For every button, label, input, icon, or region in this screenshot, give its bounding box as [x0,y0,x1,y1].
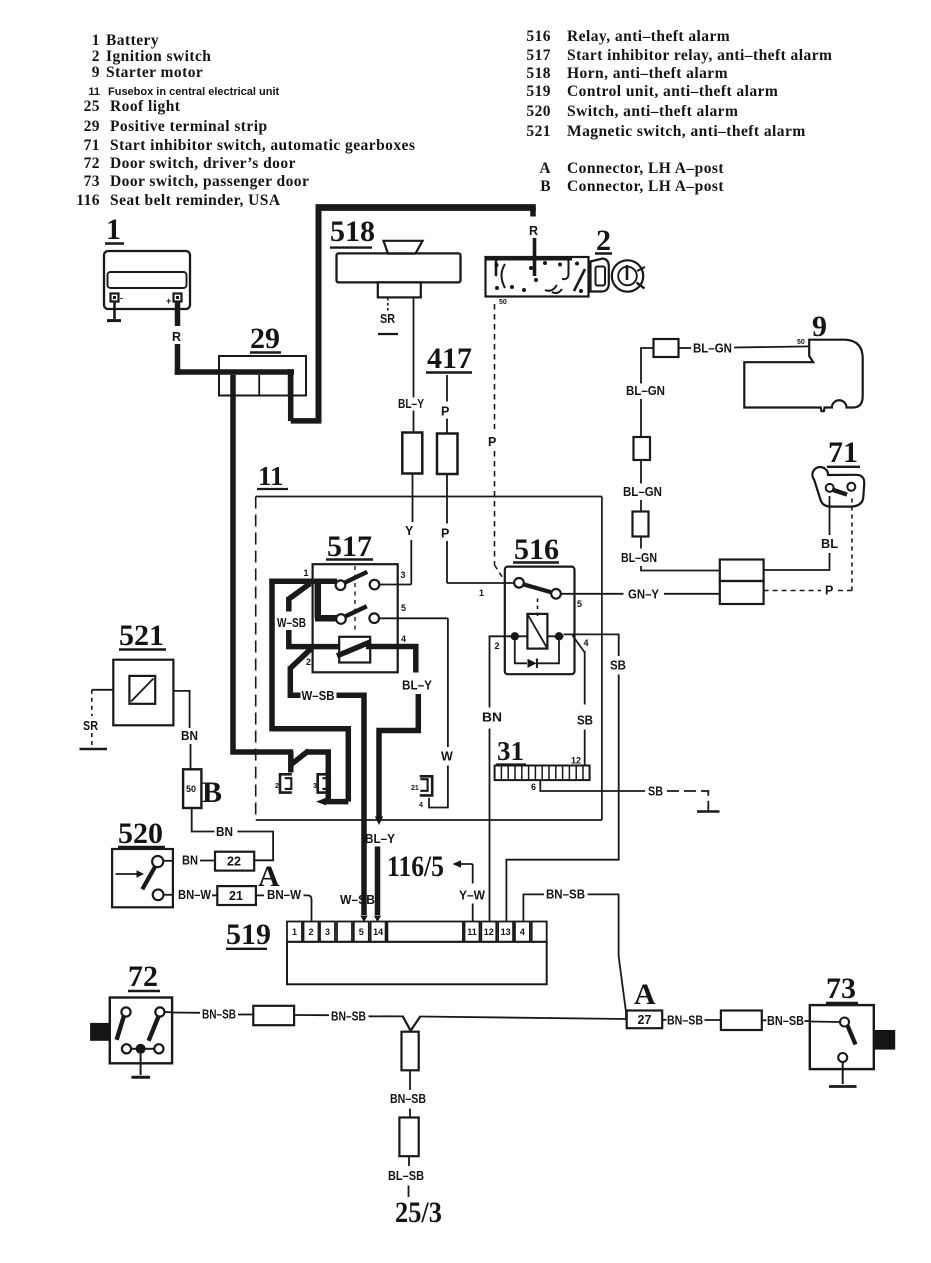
svg-text:2: 2 [495,641,500,651]
svg-text:Control unit, anti–theft alarm: Control unit, anti–theft alarm [567,83,778,100]
73 contacts [838,1018,849,1063]
fuse chain top fuse [654,339,679,357]
terminal strip 31 label [496,736,526,766]
thick wire BL-Y down stub [413,644,419,673]
connector A 27 box [627,1011,663,1029]
svg-text:SR: SR [83,719,98,733]
wire R to main vertical [291,418,322,424]
svg-text:Ignition switch: Ignition switch [106,48,211,65]
start inhibitor switch 71 body [812,467,864,507]
svg-text:BL–GN: BL–GN [621,551,657,565]
svg-text:116/5: 116/5 [387,850,444,883]
svg-text:BL–SB: BL–SB [388,1169,424,1183]
wire BN-W to 519 pin2 [304,895,312,921]
wire connector to label [762,1019,767,1021]
svg-text:417: 417 [427,342,472,375]
svg-text:5: 5 [401,603,406,613]
wire R horizontal into 29 [175,369,294,375]
svg-text:Y–W: Y–W [459,889,485,903]
wire to fuse 3 [640,500,642,512]
wire stub to 21 box [212,894,217,896]
terminal strip 31 body [495,766,590,781]
516 contact left [514,578,524,588]
73 switch arm [848,1026,856,1045]
thick wire W-SB to 519 pin5 [337,693,367,916]
thick wire lower feed right [306,752,331,800]
517 switch 2 arm [345,606,367,616]
ignition key housing [591,259,609,292]
71 switch arm [832,490,847,495]
relay 517 box [313,564,398,672]
switch 520 label [118,817,165,850]
wire to label 4 [640,537,642,549]
svg-text:Start inhibitor relay, anti–th: Start inhibitor relay, anti–theft alarm [567,47,832,64]
fusebox 11 outline left [255,497,257,821]
wire SB from 516 pin4 right [564,634,619,656]
svg-text:5: 5 [359,927,364,937]
thick wire lower feed left elbow [230,749,293,755]
wire BL to 71 [829,496,831,535]
svg-text:BL–Y: BL–Y [365,832,396,846]
svg-text:-: - [120,293,123,303]
thick wire branch diagonal to W-SB stub [289,583,311,611]
wire P dashed from ignition [495,304,506,582]
svg-text:2: 2 [306,657,311,667]
svg-text:14: 14 [373,927,383,937]
wire BN into 22 box [200,860,215,862]
svg-text:50: 50 [499,299,507,306]
ground at 521 [80,733,108,749]
horn 518 magnet [378,282,421,297]
svg-text:+: + [166,296,171,306]
wire junction to BL [764,553,830,570]
horn ground lead dotted [387,298,389,311]
wire 517 pin5 to W [379,617,448,619]
svg-text:1: 1 [304,568,309,578]
top bus wire [316,204,536,211]
519 body [287,942,547,985]
svg-text:Door switch, passenger door: Door switch, passenger door [110,173,309,190]
main vertical feed wire [316,205,322,424]
519 terminal row [287,922,547,942]
legend right column [526,28,832,195]
svg-text:Door switch, driver’s door: Door switch, driver’s door [110,155,296,172]
roof light connector 1 [402,1032,419,1071]
svg-text:P: P [825,584,833,598]
wire to inline connector right [705,1019,721,1021]
wire BN-SB from 519 pin4 [523,894,544,921]
wire to Y junction [369,1015,404,1017]
svg-text:116: 116 [76,192,100,209]
control unit 519 label [226,918,271,951]
thick wire W-SB feed into 517 pin1 [269,579,337,585]
520 switch arm [142,867,155,890]
inline connector right [721,1011,762,1031]
svg-text:A: A [539,160,551,177]
516 diode loop [515,641,559,664]
521 inner element [129,676,155,704]
wire 521 right BN [173,691,189,728]
terminal strip 29 box [219,356,306,396]
svg-text:2: 2 [275,783,279,790]
relay 516 box [505,567,575,675]
svg-text:Relay, anti–theft alarm: Relay, anti–theft alarm [567,28,730,45]
svg-text:1: 1 [479,588,484,598]
svg-text:Connector, LH A–post: Connector, LH A–post [567,178,724,195]
svg-text:9: 9 [92,64,100,81]
fusebox 11 outline bottom [256,819,602,821]
wire feed 29 branch down [230,375,236,755]
wire W down [447,618,449,747]
door switch 72 label [128,960,160,993]
svg-text:GN–Y: GN–Y [628,588,660,602]
72 bottom links [131,1048,154,1050]
svg-text:BN–SB: BN–SB [667,1014,703,1028]
svg-text:11: 11 [258,461,284,491]
svg-text:BL: BL [821,537,838,551]
svg-text:12: 12 [571,756,581,766]
svg-text:22: 22 [227,855,241,869]
svg-text:BN: BN [182,854,198,868]
svg-text:Starter motor: Starter motor [106,64,203,81]
bracket connector 3 inner [322,778,329,789]
svg-text:71: 71 [84,137,100,154]
svg-text:Seat belt reminder, USA: Seat belt reminder, USA [110,192,281,209]
72 plunger tab [90,1023,110,1041]
svg-text:516: 516 [514,533,559,566]
wire BN-SB loop down to connector A [588,894,627,1019]
junction box upper [720,560,764,582]
wire BN elbow to 22 [238,832,274,861]
wire into 73 [805,1020,810,1022]
svg-text:B: B [540,178,551,195]
wire P dashed junction to 71 [764,495,852,591]
relay 516 label [513,533,559,566]
svg-text:BN: BN [216,825,233,839]
connector 21/4 outer [420,776,433,795]
svg-text:2: 2 [308,927,313,937]
starter motor 9 body [744,340,862,412]
517 coil [339,637,370,663]
svg-text:1: 1 [92,32,100,49]
517 switch 2 contacts [336,613,379,623]
svg-text:21: 21 [229,889,243,903]
svg-text:4: 4 [401,634,406,644]
svg-text:Y: Y [405,524,414,538]
thick wire W-SB stub to coil pin 2 [286,630,340,649]
fusebox 11 outline right [601,497,603,821]
Y junction legs [403,1016,421,1030]
svg-text:31: 31 [497,736,524,766]
svg-text:SB: SB [577,714,593,728]
svg-text:72: 72 [84,155,100,172]
ignition key circle [612,260,645,291]
wire SB loop to 519 pin13 [506,675,618,922]
terminal strip 29 label [250,322,281,355]
wire R battery down [175,302,181,375]
battery ground stem [107,302,121,321]
svg-text:Roof light: Roof light [110,98,181,115]
svg-text:BN: BN [181,729,198,743]
legend left column [76,32,415,209]
svg-text:2: 2 [596,224,611,257]
svg-text:519: 519 [226,918,271,951]
wire below connector 1 [409,1070,411,1090]
thick wire 517 pin4 out [366,644,418,650]
wire bus to connector A [420,1017,627,1020]
svg-text:11: 11 [467,927,477,937]
thick wire lower feed V tap [290,751,309,773]
516 armature dashed link [537,599,539,617]
svg-text:W–SB: W–SB [340,893,375,907]
door switch 72 box [110,998,172,1064]
fuse chain middle fuse [634,437,651,460]
wire BL-GN into junction box [641,566,720,571]
71 contact left [826,484,834,492]
516 coil cross wires [511,635,564,637]
svg-text:517: 517 [327,530,372,563]
wire 521 left to SR ground [92,690,114,716]
wire SB strip pin6 to ground [540,780,645,791]
wire R into ignition switch [533,238,537,276]
520 stubs [163,861,173,895]
wire to connector [238,1014,253,1016]
relay 517 center dashed line [354,566,356,634]
svg-text:W–SB: W–SB [302,689,335,703]
svg-text:519: 519 [526,83,551,100]
magnetic switch 521 label [119,619,166,652]
svg-text:25/3: 25/3 [395,1196,442,1229]
svg-text:BL–Y: BL–Y [402,679,433,693]
svg-text:4: 4 [584,638,589,648]
bracket connector 2 outer [280,774,292,792]
svg-text:Switch, anti–theft alarm: Switch, anti–theft alarm [567,103,738,120]
fuse BL-Y [402,433,422,474]
arrow W-SB into pin 5 [360,916,367,923]
connector B 50 box [183,769,201,808]
connector box 22 [215,852,254,871]
svg-text:1: 1 [106,213,121,246]
thick wire branch to contact 2 [315,579,337,619]
wire below connector 2 [408,1156,410,1166]
wire to fuse 2 [640,399,642,437]
svg-text:BN–W: BN–W [178,888,211,902]
svg-text:P: P [488,435,496,449]
wire W to connector [429,766,448,808]
svg-text:SB: SB [610,659,626,673]
svg-text:SB: SB [648,785,663,799]
517 switch 1 contacts [336,580,380,590]
ignition switch 2 label [595,224,612,257]
517 pin labels [304,568,407,667]
svg-text:2: 2 [92,48,100,65]
519 terminal numbers [292,927,525,937]
72 switch arms [117,1015,159,1040]
battery 1 label [105,213,124,246]
wire SB dashes to ground [667,791,708,811]
516 contact right [551,589,561,599]
svg-text:Start inhibitor switch, automa: Start inhibitor switch, automatic gearbo… [110,137,415,154]
arrow into bracket 3 [316,798,326,806]
svg-text:72: 72 [128,960,158,993]
ignition switch internals [495,258,586,293]
svg-text:4: 4 [419,802,423,809]
wire Y-W from arrow [472,864,474,884]
svg-text:W–SB: W–SB [277,616,306,630]
520 arrow [116,870,145,877]
svg-text:517: 517 [526,47,551,64]
svg-text:Positive terminal strip: Positive terminal strip [110,118,268,135]
svg-text:BN–SB: BN–SB [202,1008,236,1022]
wire BN-SB right of connector A [662,1019,666,1021]
thick wire pin2 diagonal down [288,649,311,698]
svg-text:73: 73 [826,972,856,1005]
arrow BL-Y into pin 14 [374,916,381,923]
ignition switch 2 box [486,257,589,297]
wire to 25/3 [408,1186,410,1198]
svg-text:1: 1 [292,927,297,937]
wire BN to connector B [190,744,192,769]
517 switch 1 arm [344,572,367,583]
72 junction dot [136,1044,146,1054]
svg-text:520: 520 [526,103,551,120]
516 diode [528,659,537,669]
svg-text:BL–GN: BL–GN [693,342,732,356]
svg-text:BL–Y: BL–Y [398,397,425,411]
svg-text:3: 3 [313,783,317,790]
wire BN-SB from 72 [165,1011,201,1014]
svg-text:13: 13 [501,927,511,937]
svg-text:518: 518 [330,215,375,248]
wire fuse chain corner [641,348,654,384]
wire BN below B [192,808,215,832]
svg-text:73: 73 [84,173,100,190]
ground bar right [697,810,720,813]
svg-text:516: 516 [526,28,551,45]
svg-text:BN–SB: BN–SB [331,1010,366,1024]
516 pin2 junction dot [511,632,519,640]
bracket connector 3 outer [318,774,330,792]
svg-text:3: 3 [325,927,330,937]
svg-text:50: 50 [186,784,196,794]
72 ground [132,1054,151,1078]
svg-text:Fusebox in central electrical: Fusebox in central electrical unit [108,86,279,98]
wire to label [640,460,642,484]
wire BN-W right of 21 [256,894,264,896]
svg-text:3: 3 [401,570,406,580]
73 ground [829,1062,857,1087]
svg-text:R: R [172,330,181,344]
svg-text:25: 25 [84,98,100,115]
svg-text:Battery: Battery [106,32,159,49]
520 contact bottom [153,889,164,900]
svg-text:Horn, anti–theft alarm: Horn, anti–theft alarm [567,65,728,82]
thick wire BL-Y to 519 pin14 [375,847,381,916]
wire 517 pin3 [379,584,411,586]
fuse P [437,434,458,475]
wire 417 to fuse P [446,375,448,434]
svg-text:12: 12 [484,927,494,937]
switch 520 box [112,849,173,907]
arrow BL-Y at box edge [375,817,383,826]
svg-text:SR: SR [380,312,395,326]
svg-text:R: R [529,224,538,238]
roof light connector 2 [399,1118,418,1157]
svg-text:Magnetic switch, anti–theft al: Magnetic switch, anti–theft alarm [567,123,806,140]
svg-text:Connector, LH A–post: Connector, LH A–post [567,160,724,177]
bracket connector 2 inner [285,778,292,789]
wire GN-Y to junction [664,593,720,595]
door switch 73 box [810,1005,874,1069]
516 coil [527,614,547,649]
inline connector left [253,1006,294,1025]
svg-text:21: 21 [411,785,419,792]
wire 516 pin5 GN-Y [561,593,624,595]
73 plunger tab [874,1030,895,1050]
wire SB into strip 31 [584,730,586,766]
svg-text:27: 27 [638,1013,652,1027]
top bus stub to ignition [530,208,536,217]
connector 21/4 inner [420,779,427,791]
arrow to 116/5 [453,860,473,867]
wire SB diagonal from pin4 [572,635,584,704]
svg-text:518: 518 [526,65,551,82]
svg-text:B: B [202,776,222,809]
wire BN from 516 pin2 [490,636,512,707]
horn 518 cone [384,241,423,254]
fusebox 11 outline top [256,496,602,498]
71 contact right [847,483,855,491]
svg-text:520: 520 [118,817,163,850]
thick wire left vertical at 517 [269,579,275,732]
junction box lower [720,581,764,604]
svg-text:BN–SB: BN–SB [767,1014,804,1028]
wire Y fuse to 517 pin3 [411,474,412,585]
svg-text:BN–SB: BN–SB [546,888,585,902]
wire connector to label [294,1014,329,1016]
svg-text:BL–GN: BL–GN [623,485,662,499]
svg-text:11: 11 [88,86,100,98]
battery 1 body [104,251,190,309]
520 contact top [152,856,163,867]
svg-text:29: 29 [84,118,100,135]
svg-text:4: 4 [520,927,525,937]
fuse 417 label [426,342,472,375]
wire P fuse to 516 pin1 [447,474,514,583]
svg-text:BN–W: BN–W [267,888,301,902]
fusebox 11 label [257,461,288,491]
svg-text:P: P [441,527,449,541]
wire horn to fuse [413,297,415,432]
door switch 73 label [826,972,858,1005]
svg-text:BN: BN [482,711,502,725]
73 wire into contact [810,1021,840,1024]
svg-text:9: 9 [812,310,827,343]
wire BN to 519 pin12 [489,729,491,922]
magnetic switch 521 box [113,660,173,726]
svg-text:W: W [441,750,453,764]
72 contacts [121,1007,164,1053]
thick wire BL-Y elbow [376,694,421,817]
connector box 21 [217,886,256,905]
thick wire from 517 left down to bracket 3 [272,726,348,802]
battery terminal negative [111,293,124,303]
svg-text:50: 50 [797,339,805,346]
svg-text:521: 521 [119,619,164,652]
svg-text:521: 521 [526,123,551,140]
wire BL-GN to starter [679,346,810,348]
svg-text:29: 29 [250,322,280,355]
